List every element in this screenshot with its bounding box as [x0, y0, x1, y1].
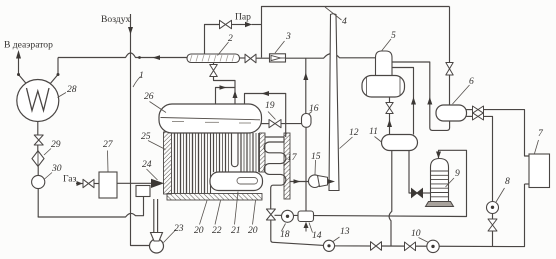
svg-text:22: 22 [212, 225, 222, 236]
svg-text:17: 17 [287, 152, 298, 163]
svg-text:20: 20 [248, 225, 258, 236]
svg-text:В деаэратор: В деаэратор [4, 40, 53, 51]
svg-text:2: 2 [228, 33, 233, 44]
svg-text:20: 20 [194, 225, 204, 236]
svg-text:5: 5 [391, 30, 396, 41]
svg-text:15: 15 [311, 151, 321, 162]
svg-text:29: 29 [51, 139, 61, 150]
svg-text:3: 3 [285, 31, 291, 42]
svg-text:26: 26 [144, 91, 154, 102]
svg-text:30: 30 [51, 163, 62, 174]
svg-text:6: 6 [469, 76, 474, 87]
svg-text:10: 10 [411, 228, 421, 239]
svg-text:13: 13 [340, 226, 350, 237]
svg-text:28: 28 [67, 84, 77, 95]
svg-text:7: 7 [538, 128, 544, 139]
svg-text:Воздух: Воздух [101, 14, 130, 25]
svg-text:14: 14 [312, 230, 322, 241]
svg-text:Газ: Газ [63, 174, 77, 185]
svg-text:21: 21 [231, 225, 241, 236]
svg-text:25: 25 [141, 131, 151, 142]
svg-text:4: 4 [342, 16, 347, 27]
svg-text:Пар: Пар [235, 12, 251, 23]
svg-text:23: 23 [174, 223, 184, 234]
svg-text:12: 12 [349, 127, 359, 138]
svg-text:24: 24 [142, 159, 152, 170]
svg-text:18: 18 [280, 229, 290, 240]
svg-text:16: 16 [309, 103, 319, 114]
svg-text:27: 27 [103, 139, 114, 150]
svg-text:8: 8 [505, 176, 510, 187]
svg-text:9: 9 [455, 168, 460, 179]
svg-text:11: 11 [369, 126, 378, 137]
svg-text:1: 1 [139, 70, 144, 81]
svg-text:19: 19 [265, 100, 275, 111]
